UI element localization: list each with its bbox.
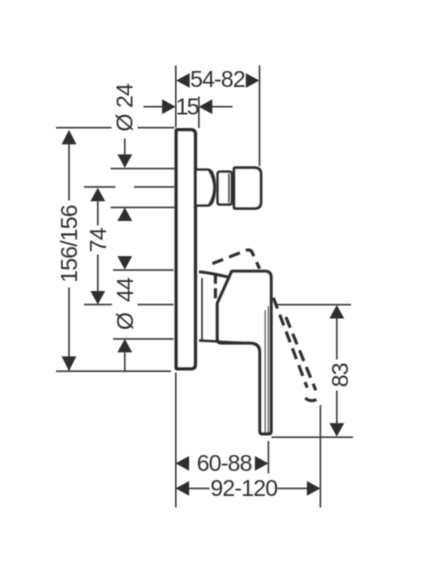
ref line spout bottom [111, 206, 175, 208]
ref line handle centre [84, 304, 112, 306]
spout connector flange [197, 170, 215, 206]
svg-text:24: 24 [112, 83, 138, 108]
horizontal ref line plate top [56, 127, 112, 129]
spout connector collar [218, 172, 232, 205]
extension line lever (x=268.4) [267, 441, 269, 474]
dimension 83 [329, 305, 344, 319]
svg-text:156/156: 156/156 [56, 205, 82, 283]
spout flange inner curve [209, 171, 214, 205]
collar inner line [228, 174, 230, 203]
dimension 92-120 [176, 481, 190, 496]
dimension 54-82 [176, 73, 190, 88]
ref line handle bottom [113, 338, 174, 340]
ref line lever pivot right [276, 304, 351, 306]
escutcheon plate [176, 130, 195, 369]
dashed lever right line [286, 317, 316, 390]
valve body line behind handle [201, 278, 203, 340]
spout connector nut [234, 168, 261, 209]
svg-text:54-82: 54-82 [190, 66, 245, 92]
dimension 156/156 [62, 130, 77, 145]
ref line spout top [111, 168, 175, 170]
dashed lever left line [273, 298, 307, 388]
ref line handle top [113, 269, 174, 271]
dashed body edge [214, 274, 217, 300]
extension line left bottom [175, 373, 177, 508]
body bottom edge to plate [199, 341, 248, 344]
ref line spout centre [84, 186, 115, 188]
dimension 15 [144, 106, 163, 108]
svg-text:15: 15 [176, 94, 199, 120]
svg-text:74: 74 [85, 227, 111, 252]
extension line dashed tip (x=320.4) [319, 405, 321, 508]
lever inner lines [264, 310, 266, 433]
ref line lever tip right [272, 436, 354, 438]
dimension 60-88 [176, 456, 190, 471]
svg-text:Ø: Ø [112, 114, 138, 132]
ref line plate bottom [56, 370, 171, 372]
dashed lever top edge [212, 250, 259, 269]
dimension 74 [90, 188, 105, 202]
svg-text:60-88: 60-88 [197, 450, 252, 476]
svg-text:92-120: 92-120 [210, 475, 277, 501]
handle base curve [199, 272, 229, 277]
extension line left top (x=175.8) [175, 66, 177, 128]
svg-text:44: 44 [112, 277, 138, 302]
dashed lever tip [305, 397, 320, 400]
extension line nut right (x=259.5) [259, 66, 261, 167]
dim line Ø24 arrows [124, 139, 126, 155]
svg-text:Ø: Ø [112, 312, 138, 330]
extension line plate front (x=198.9) [198, 97, 200, 129]
handle body and lever [217, 271, 271, 434]
svg-text:83: 83 [327, 363, 353, 387]
